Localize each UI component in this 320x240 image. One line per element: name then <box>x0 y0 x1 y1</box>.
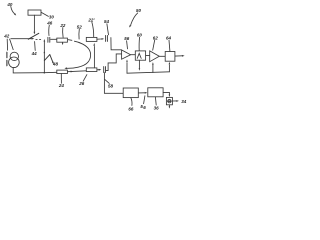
wire detector54 to preamp upper input <box>111 38 121 50</box>
svg-text:26: 26 <box>78 81 85 86</box>
leader 46 to lens <box>48 25 51 35</box>
mid arrowhead up on vertical <box>44 51 46 53</box>
output arrow from 64 <box>175 55 182 57</box>
small port below cell 22 <box>62 42 64 43</box>
mirror 48 <box>44 55 49 61</box>
svg-text:52: 52 <box>77 25 83 30</box>
condenser lens 46 (double bars) <box>48 37 50 42</box>
svg-text:66: 66 <box>128 107 134 112</box>
svg-text:24: 24 <box>58 83 65 88</box>
cell 24b <box>86 68 97 72</box>
pipe between 22' and 24' with up arrow <box>93 46 95 67</box>
axis 22' to window 54, arrow <box>97 38 101 40</box>
svg-text:58: 58 <box>108 84 114 89</box>
box 64 <box>165 52 175 62</box>
axis cell24 to cell24b with arrow <box>68 70 87 73</box>
feedback bus <box>127 72 169 73</box>
wire amp to box 64 <box>159 55 165 57</box>
wire bottom detector staircase to preamp lower input <box>106 54 122 71</box>
chopper 44 slash <box>28 33 39 39</box>
ray / leader with arrowhead toward label 48 <box>50 55 53 63</box>
wire box64 bottom to bus, arrow up <box>168 65 170 72</box>
bottom axis junction to cell 24 <box>44 71 56 73</box>
below meter arrow down <box>168 105 170 107</box>
arrow from label 40 <box>11 6 15 14</box>
svg-text:40: 40 <box>6 2 13 7</box>
preamp triangle 56 <box>122 50 131 59</box>
svg-text:48: 48 <box>52 62 59 67</box>
top optical axis from lamp <box>11 38 32 40</box>
arrow after cell 24b <box>97 69 99 71</box>
axis lens to cell 22 <box>51 38 57 40</box>
svg-text:36: 36 <box>154 106 160 111</box>
box 30 (chopper drive) <box>28 10 41 15</box>
svg-text:56: 56 <box>124 36 130 41</box>
wire box36 to meter, arrow down <box>163 92 169 94</box>
slit element with arrows <box>6 52 8 65</box>
cell 22' <box>86 37 97 41</box>
arrow box66 to box36 <box>138 92 144 94</box>
bandpass peak symbol <box>137 53 141 58</box>
leaders from 42 <box>6 39 8 50</box>
svg-text:6: 6 <box>143 105 146 110</box>
reference cell 24 <box>57 70 68 73</box>
svg-text:42: 42 <box>3 34 10 39</box>
filter box 60 <box>135 51 145 60</box>
svg-text:22′: 22′ <box>87 18 95 23</box>
amp triangle 62 <box>150 51 160 62</box>
box 66 <box>123 88 138 98</box>
svg-text:30: 30 <box>49 15 55 20</box>
wire filter bottom to bus, arrow down <box>138 60 140 68</box>
svg-text:62: 62 <box>153 35 159 40</box>
svg-text:50: 50 <box>136 8 142 13</box>
wire amp62 bottom to bus, arrow up <box>152 65 154 73</box>
window/detector 58 (double bars) <box>104 67 106 73</box>
window/detector 54 (double bars) <box>106 35 108 41</box>
wire preamp bottom to bus, arrow up <box>126 63 128 74</box>
meter output arrow + label 34 <box>173 100 177 102</box>
svg-text:44: 44 <box>31 51 38 56</box>
arrow from label 50 <box>131 13 138 25</box>
junction dot <box>44 72 46 74</box>
arrowhead at chopper <box>32 38 35 40</box>
leader to label 30 <box>41 12 48 16</box>
svg-text:34: 34 <box>181 99 187 104</box>
up arrowhead at top of vertical beam <box>44 39 46 42</box>
box 36 <box>148 88 163 97</box>
label 44 leader <box>34 42 37 51</box>
lamp 42 (two circles) <box>10 52 18 60</box>
meter 34 <box>166 97 172 104</box>
wire detector58 down to box 66 <box>104 73 123 94</box>
vertical beam line x=44.35 <box>43 42 45 73</box>
wire preamp to filter <box>131 54 135 56</box>
wire box30 to chopper, arrow down <box>33 15 35 31</box>
svg-text:64: 64 <box>166 36 172 41</box>
sample cell 22 <box>57 38 68 42</box>
loop arc 52 <box>66 40 91 69</box>
dashes after chopper <box>36 38 41 40</box>
wire filter to amp 62 <box>146 55 150 57</box>
lamp bottom wire to bottom axis <box>13 68 44 73</box>
